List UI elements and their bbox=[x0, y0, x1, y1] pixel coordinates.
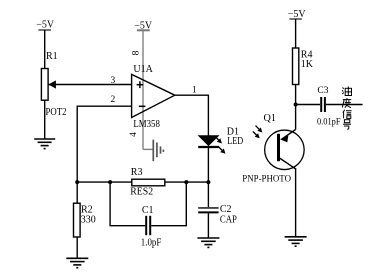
svg-text:−5V: −5V bbox=[36, 20, 55, 31]
wire -5V to R1 top bbox=[44, 30, 46, 69]
wire C1 to R3 right node bbox=[151, 182, 186, 226]
wire node to C3 bbox=[296, 104, 320, 106]
wire -5V to R4 bbox=[295, 19, 297, 48]
ground (below C2) bbox=[197, 238, 219, 247]
node junction R3 right bbox=[184, 180, 188, 184]
svg-text:R1: R1 bbox=[46, 51, 58, 62]
wire feedback bus bbox=[77, 181, 208, 183]
wire pin 2 (feedback to op-amp -) bbox=[77, 106, 131, 182]
svg-text:C1: C1 bbox=[142, 205, 154, 216]
wire R4 bottom to node bbox=[295, 85, 297, 130]
wire pin 4 to sideways ground bbox=[143, 148, 153, 150]
label oil-density signal char 4 (hao/number) bbox=[343, 120, 351, 129]
capacitor C3 bbox=[317, 86, 341, 128]
wire Q1 emitter to ground bbox=[295, 169, 297, 237]
label oil-density signal char 2 (du/degree) bbox=[342, 98, 351, 108]
wire LED cathode down to bus bbox=[207, 147, 209, 182]
wire op-amp output pin 1 bbox=[175, 95, 209, 136]
resistor R1 (potentiometer body) bbox=[41, 51, 57, 100]
wire R1 bottom to ground bbox=[44, 100, 46, 139]
svg-text:1.0pF: 1.0pF bbox=[141, 237, 162, 248]
capacitor C2 bbox=[198, 204, 237, 225]
resistor R4 bbox=[293, 48, 314, 85]
capacitor C1 bbox=[141, 205, 162, 248]
svg-text:U1A: U1A bbox=[133, 64, 153, 75]
ground (op-amp pin 4, sideways) bbox=[153, 140, 163, 162]
wire R2 bottom to ground bbox=[76, 237, 78, 258]
power -5V (middle, op-amp pin 8) bbox=[134, 20, 153, 31]
diode D1 LED bbox=[198, 127, 243, 148]
node junction left bbox=[75, 180, 79, 184]
label oil-density signal char 3 (xin/signal) bbox=[343, 110, 352, 119]
node junction R4/C3/Q1 bbox=[294, 103, 298, 107]
svg-text:POT2: POT2 bbox=[46, 107, 67, 118]
ground (below POT2) bbox=[34, 139, 55, 149]
svg-text:RES2: RES2 bbox=[130, 186, 153, 197]
wire C2 bottom to ground bbox=[207, 212, 209, 238]
svg-text:R3: R3 bbox=[131, 167, 143, 178]
resistor R3 bbox=[130, 167, 165, 198]
svg-text:0.01pF: 0.01pF bbox=[317, 118, 341, 128]
wire pin 3 (wiper to op-amp +) bbox=[48, 84, 131, 86]
svg-text:2: 2 bbox=[111, 95, 116, 105]
transistor Q1 PNP-PHOTO bbox=[242, 113, 304, 184]
svg-text:330: 330 bbox=[81, 214, 96, 225]
resistor R2 bbox=[74, 182, 96, 237]
svg-text:PNP-PHOTO: PNP-PHOTO bbox=[242, 173, 291, 184]
svg-text:4: 4 bbox=[128, 132, 138, 137]
svg-text:CAP: CAP bbox=[220, 214, 237, 225]
potentiometer wiper arrow bbox=[48, 80, 56, 88]
svg-text:1K: 1K bbox=[301, 59, 314, 70]
power -5V (right) bbox=[288, 9, 307, 20]
LED emission arrows bbox=[215, 136, 226, 154]
node junction LED/C2 bbox=[206, 180, 210, 184]
svg-text:8: 8 bbox=[131, 50, 141, 55]
op-amp + input sign bbox=[137, 81, 144, 88]
wire C1 branch bbox=[110, 182, 145, 226]
svg-text:LED: LED bbox=[227, 136, 243, 147]
svg-text:C3: C3 bbox=[317, 86, 328, 96]
photo arrows into Q1 bbox=[253, 126, 263, 139]
wire LED node down to C2 bbox=[207, 182, 209, 207]
wire op-amp power rail pins 8/4 bbox=[142, 30, 144, 149]
power -5V (left) bbox=[36, 20, 55, 31]
svg-text:LM358: LM358 bbox=[133, 119, 160, 130]
ground (below R2) bbox=[66, 258, 88, 267]
op-amp U1A triangle bbox=[132, 64, 175, 130]
node junction R3 left bbox=[108, 180, 112, 184]
wire C3 to output bbox=[326, 104, 363, 106]
op-amp - input sign bbox=[139, 105, 146, 107]
svg-text:3: 3 bbox=[111, 76, 116, 86]
svg-text:1: 1 bbox=[192, 86, 197, 96]
ground (below Q1) bbox=[285, 237, 307, 246]
label oil-density signal char 1 (you/oil) bbox=[342, 87, 352, 96]
svg-text:Q1: Q1 bbox=[264, 113, 276, 124]
